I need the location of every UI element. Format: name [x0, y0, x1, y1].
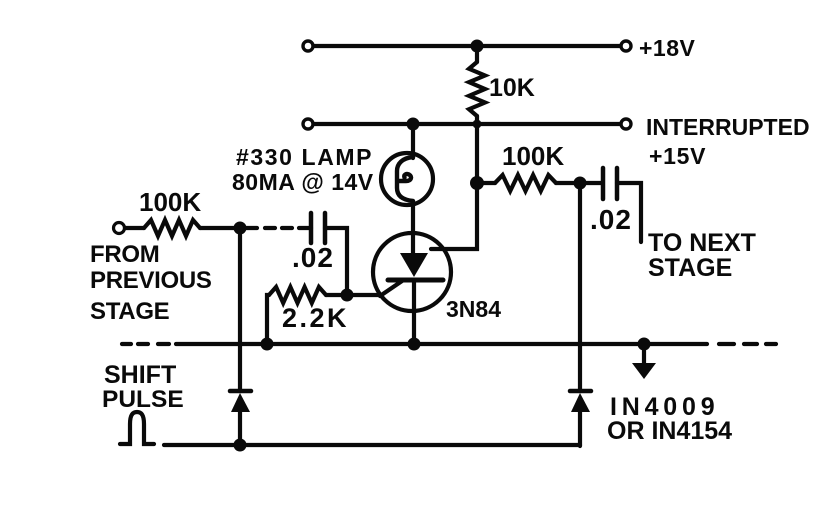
- pulse waveform symbol: [120, 412, 154, 444]
- svg-text:FROM: FROM: [90, 241, 159, 268]
- diode CR2: [570, 389, 591, 394]
- wire: C2 node down to diode CR2: [578, 183, 582, 389]
- lamp DS1 #330: [381, 153, 433, 205]
- node: input junction: [234, 222, 247, 235]
- node: Q1 cathode / rail junction: [408, 338, 421, 351]
- svg-text:PREVIOUS: PREVIOUS: [90, 267, 212, 294]
- svg-text:100K: 100K: [502, 141, 564, 171]
- svg-text:OR IN4154: OR IN4154: [607, 417, 732, 445]
- diode CR1: [230, 389, 251, 394]
- resistor R1 10K: [475, 46, 479, 62]
- wire: input node down to diode CR1: [238, 228, 242, 389]
- terminal: input from previous stage: [114, 223, 125, 234]
- node: arrow / rail junction: [638, 338, 651, 351]
- node: 100K / base2 junction: [470, 176, 484, 190]
- wire: 10K bottom through +15V rail down and left to base2 of Q1: [431, 116, 477, 249]
- svg-text:2.2K: 2.2K: [282, 303, 349, 333]
- wire: lamp top lead: [411, 124, 415, 158]
- svg-text:STAGE: STAGE: [648, 254, 732, 282]
- node: gate junction: [341, 289, 354, 302]
- wire: C1 to gate node: [325, 228, 347, 295]
- svg-text:.02: .02: [292, 242, 334, 273]
- svg-text:80MA @ 14V: 80MA @ 14V: [232, 169, 374, 195]
- svg-text:PULSE: PULSE: [102, 386, 184, 413]
- svg-text:10K: 10K: [489, 74, 535, 102]
- wire: common rail right dashes: [719, 342, 734, 346]
- wire: INTERRUPTED +15V rail: [313, 122, 622, 126]
- terminal: top rail left: [303, 41, 313, 51]
- terminal: top rail right: [621, 41, 631, 51]
- svg-text:3N84: 3N84: [446, 296, 501, 322]
- svg-text:#330 LAMP: #330 LAMP: [236, 144, 373, 170]
- wire: shift pulse rail: [164, 443, 580, 447]
- node: 2.2K leg / rail junction: [261, 338, 274, 351]
- node: CR1 / pulse rail junction: [234, 439, 247, 452]
- wire: dashed link to C1: [240, 226, 257, 230]
- svg-text:STAGE: STAGE: [90, 298, 170, 325]
- svg-text:SHIFT: SHIFT: [104, 361, 176, 389]
- wire: common rail: [176, 342, 707, 346]
- wire: common rail left dashes: [122, 342, 131, 346]
- wire: gate wire from node to Q1: [347, 293, 381, 297]
- transistor Q1 3N84: [373, 233, 451, 311]
- resistor R4 2.2K: [267, 295, 269, 344]
- node: 10K line crossing +15V rail: [473, 120, 482, 129]
- terminal: +15V rail left: [303, 119, 313, 129]
- capacitor C2 .02: [601, 168, 606, 199]
- capacitor C1 .02: [309, 213, 314, 243]
- node: 100K / C2 junction: [574, 177, 587, 190]
- wire: CR1 to pulse rail: [238, 412, 242, 445]
- wire: CR2 to pulse rail: [578, 412, 582, 446]
- svg-text:100K: 100K: [139, 187, 201, 217]
- wire: C2 to next stage stub: [617, 183, 641, 242]
- wire: +18V top rail: [313, 44, 622, 48]
- svg-text:+15V: +15V: [649, 143, 706, 169]
- svg-text:INTERRUPTED: INTERRUPTED: [646, 114, 810, 140]
- wire: lamp bottom lead to Q1 anode: [411, 203, 415, 255]
- svg-text:.02: .02: [590, 204, 632, 235]
- ground arrow: [642, 344, 646, 365]
- svg-text:TO NEXT: TO NEXT: [648, 229, 756, 257]
- node: lamp / +15V rail junction: [407, 118, 420, 131]
- terminal: +15V rail right: [621, 119, 631, 129]
- resistor R2 100K: [477, 181, 495, 185]
- node: +18V / 10K junction: [471, 40, 484, 53]
- svg-text:+18V: +18V: [639, 35, 696, 61]
- resistor R3 100K input: [125, 226, 144, 230]
